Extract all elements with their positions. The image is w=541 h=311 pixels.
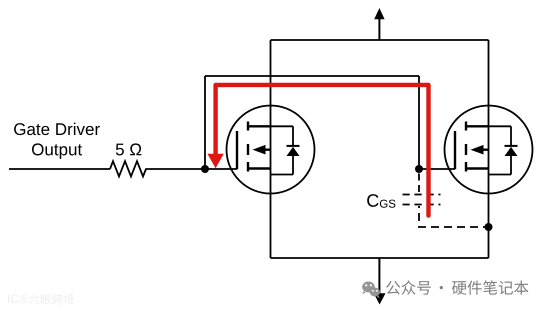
capacitor CGS bottom plate: [403, 204, 441, 206]
source stub: [466, 167, 489, 169]
node B (gate node Q2): [415, 165, 423, 173]
resistor R (5 ohm): [110, 161, 148, 176]
channel dash bottom: [247, 162, 249, 172]
wire down to Q2 gate node: [418, 76, 420, 169]
node A (gate node Q1): [201, 165, 209, 173]
channel dash bottom: [465, 162, 467, 172]
capacitor CGS dashed lead from node: [418, 174, 420, 194]
drain stub: [466, 125, 489, 127]
wechat icon: [362, 282, 380, 299]
gate bar: [236, 131, 238, 169]
gate bar: [454, 131, 456, 169]
capacitor CGS top plate: [403, 194, 441, 196]
body diode branch: [489, 125, 512, 127]
wire Q2 gate lead: [419, 168, 455, 170]
drain stub: [248, 125, 271, 127]
capacitor CGS lead down: [419, 206, 489, 227]
red gate current path: [216, 85, 429, 216]
wire left rail (Q1 drain-source vertical): [270, 40, 272, 258]
wire top cross to Q2 gate: [205, 75, 419, 77]
wire gate node up: [204, 76, 206, 169]
label Gate Driver Output: [14, 123, 100, 135]
body arrow: [260, 148, 271, 150]
wire bottom rail: [271, 257, 489, 259]
wire right rail (Q2 drain-source vertical): [488, 40, 490, 258]
channel dash mid: [247, 144, 249, 155]
channel dash top: [247, 122, 249, 131]
wire gate driver horizontal: [9, 168, 110, 170]
label watermark left (faint): [8, 295, 28, 303]
label 5 ohm: [116, 143, 141, 155]
transistor Q1 (left MOSFET): [227, 106, 315, 194]
channel dash top: [465, 122, 467, 131]
wire resistor to gate node: [148, 168, 237, 170]
bottom return arrow: [374, 258, 386, 305]
label watermark right: [386, 280, 528, 294]
body arrow: [478, 148, 489, 150]
label CGS: [367, 194, 378, 207]
source stub: [248, 167, 271, 169]
transistor Q2 (right MOSFET): [445, 106, 533, 194]
channel dash mid: [465, 144, 467, 155]
node C (Q2 source junction): [485, 223, 493, 231]
red arrowhead: [207, 154, 223, 169]
top supply arrow: [374, 8, 384, 40]
body diode branch: [271, 125, 294, 127]
wire top rail: [271, 39, 489, 41]
